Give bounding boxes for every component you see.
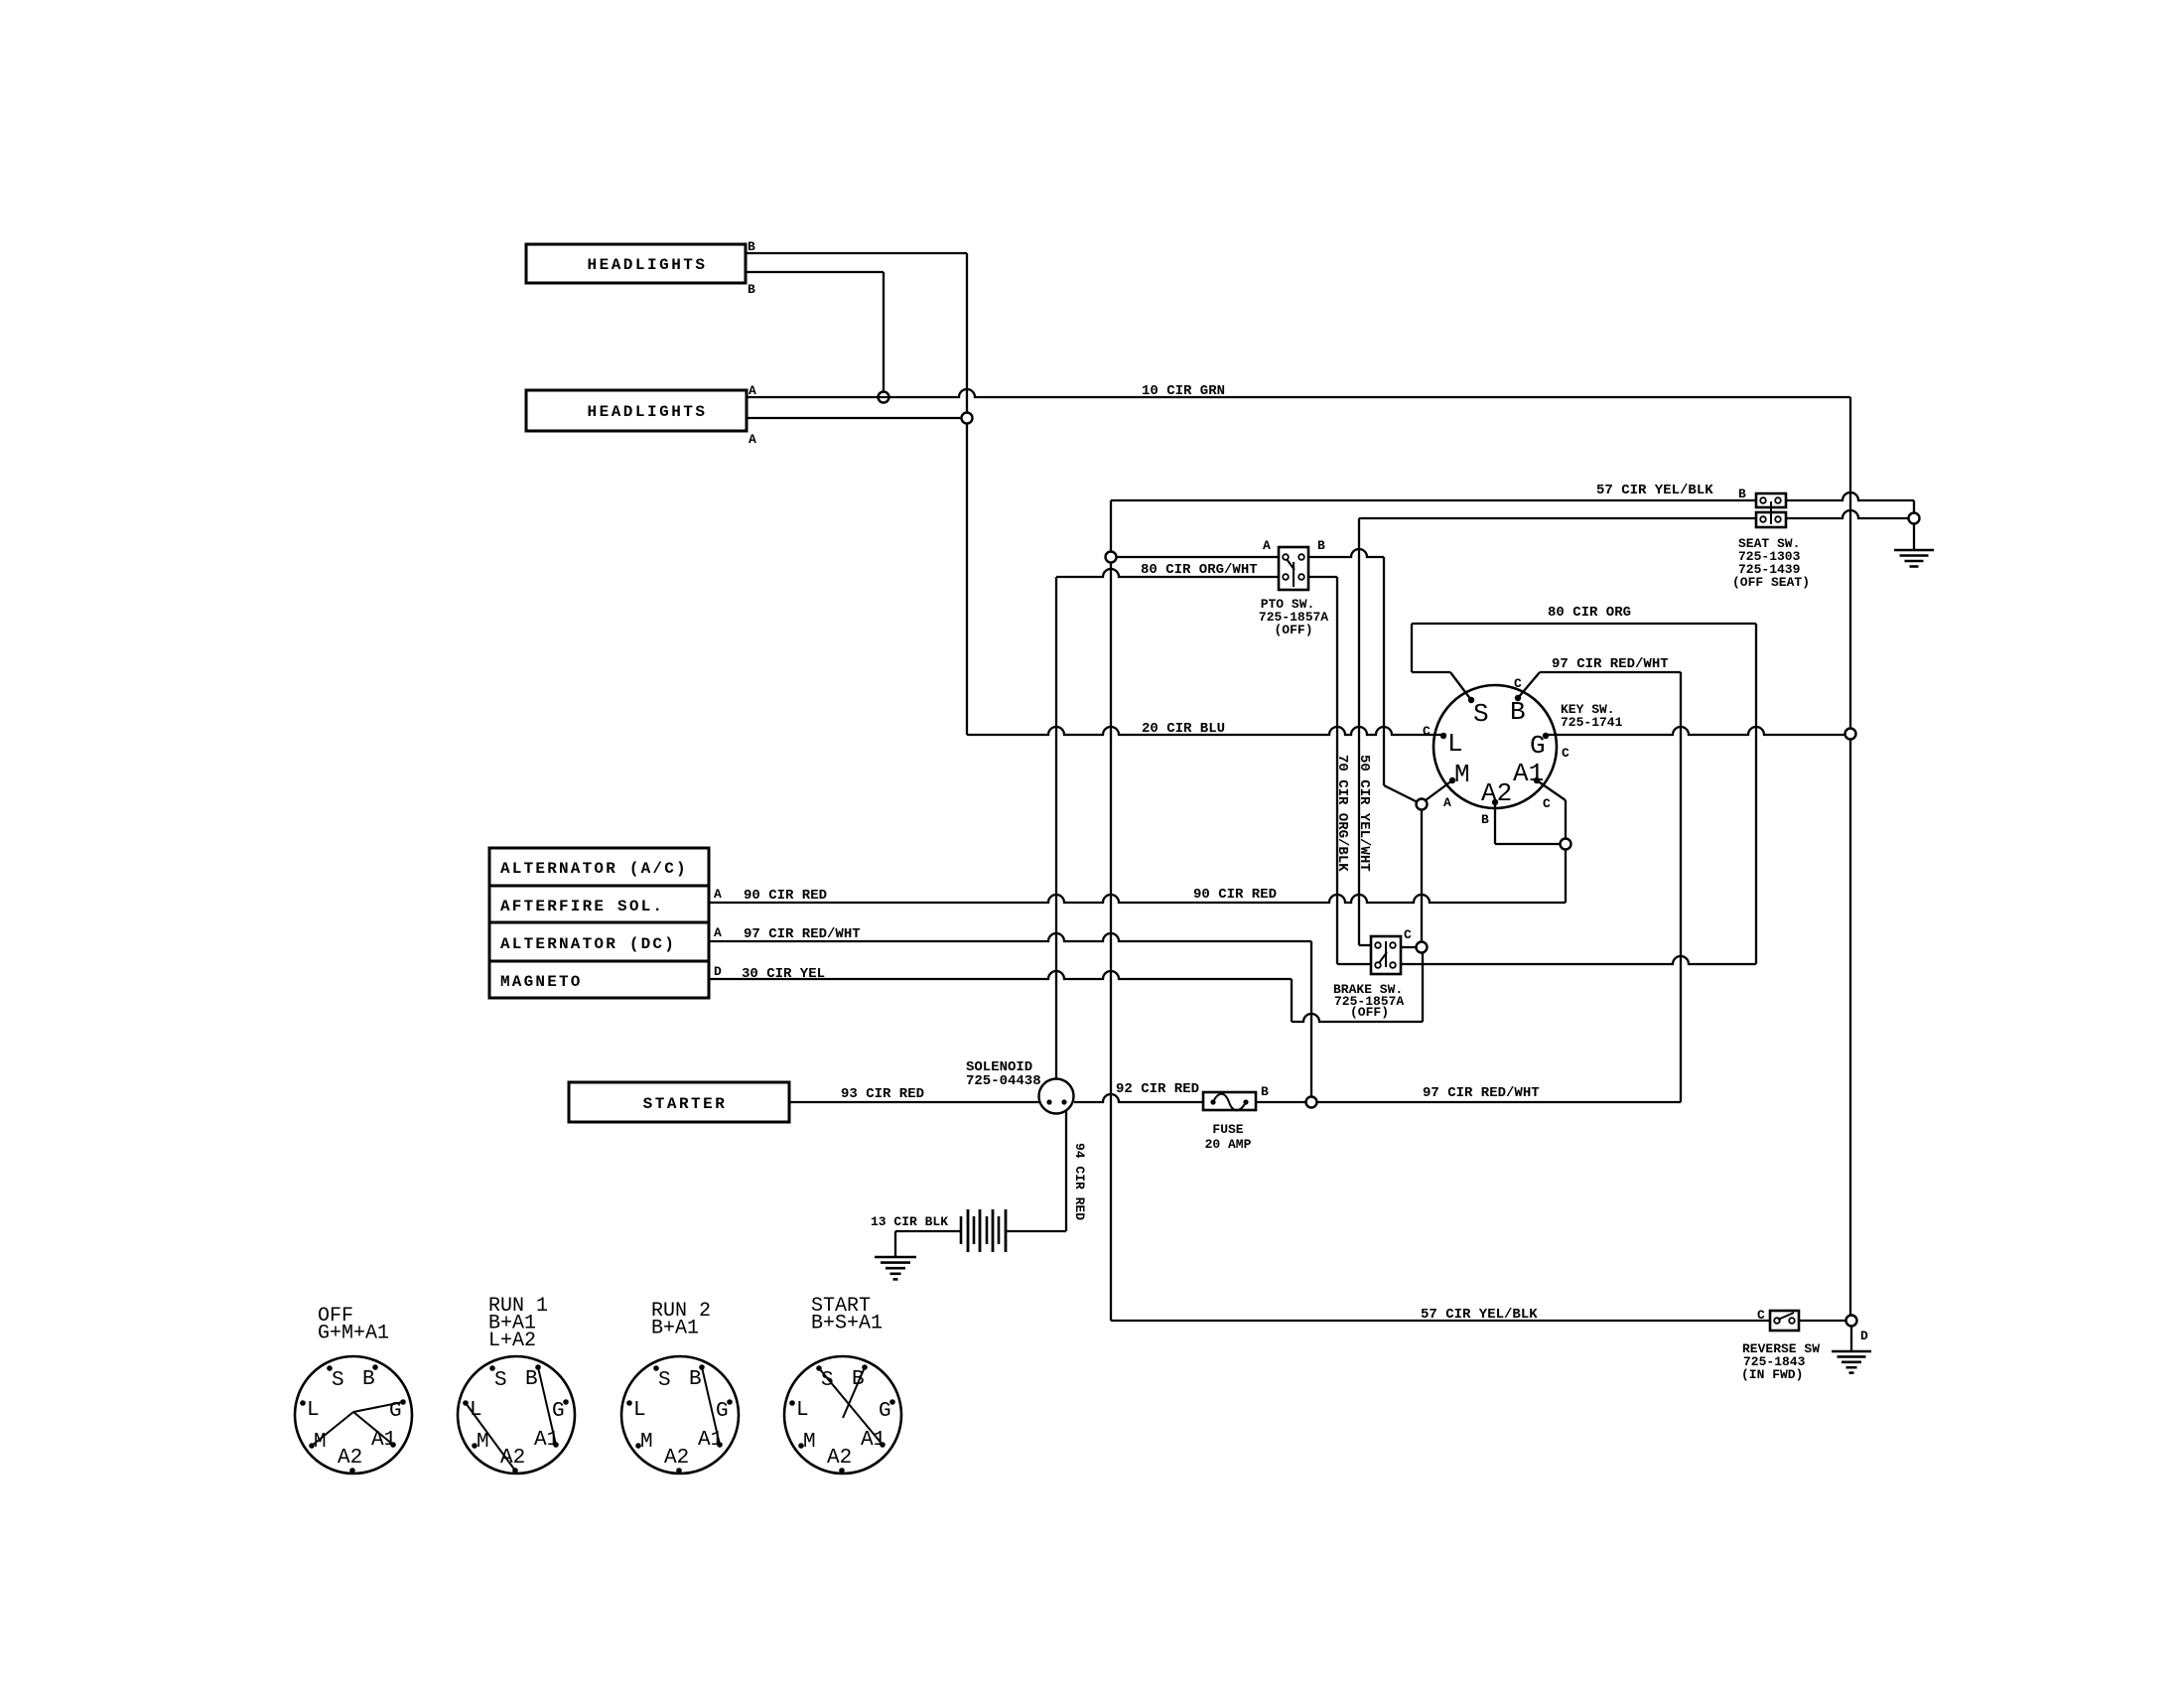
wire alternator dc drop to fuse node: [1310, 941, 1312, 1096]
svg-text:725-1741: 725-1741: [1561, 715, 1623, 730]
svg-text:L: L: [307, 1399, 320, 1422]
node key A connector: [1417, 799, 1428, 810]
pin label B (PTO): [1317, 538, 1325, 553]
svg-text:97 CIR RED/WHT: 97 CIR RED/WHT: [744, 926, 861, 942]
svg-text:(OFF): (OFF): [1350, 1005, 1389, 1020]
svg-text:13 CIR BLK: 13 CIR BLK: [871, 1214, 948, 1229]
svg-text:B: B: [748, 282, 755, 297]
wire 10 CIR GRN: [747, 383, 1850, 399]
wire key A2 drop: [1494, 802, 1496, 844]
wire vertical B lower down to 10 CIR GRN junction: [883, 272, 885, 397]
wire headlights B upper to corner: [746, 252, 967, 254]
box HEADLIGHTS (upper): [526, 244, 746, 283]
wire PTO lower right to 70 CIR ORG/BLK drop: [1308, 576, 1337, 578]
box ALTERNATOR (A/C): [489, 848, 709, 886]
svg-text:AFTERFIRE SOL.: AFTERFIRE SOL.: [500, 898, 664, 915]
wire vertical from B upper down to A lower junction: [966, 253, 968, 735]
svg-text:50 CIR YEL/WHT: 50 CIR YEL/WHT: [1356, 755, 1372, 872]
svg-text:57 CIR YEL/BLK: 57 CIR YEL/BLK: [1421, 1307, 1538, 1323]
key position RUN 2 (B+A1): [621, 1300, 739, 1473]
wire 80 CIR ORG/WHT lower: [1056, 569, 1279, 577]
svg-text:92 CIR RED: 92 CIR RED: [1116, 1081, 1199, 1097]
pin label C near S/B: [1514, 676, 1522, 691]
svg-text:A2: A2: [664, 1447, 689, 1470]
wire battery ground drop: [894, 1231, 896, 1257]
wire vertical 57 CIR YEL/BLK left drop: [1110, 500, 1112, 1321]
wire seat switch B to right corner: [1786, 492, 1914, 500]
wire 80 CIR ORG: [1412, 605, 1756, 624]
wire 97 CIR RED/WHT from key B: [1540, 656, 1681, 672]
svg-text:725-04438: 725-04438: [966, 1073, 1041, 1089]
key position RUN 1 (B+A1, L+A2): [458, 1295, 575, 1473]
key position START (B+S+A1): [784, 1295, 901, 1473]
svg-text:B: B: [748, 239, 755, 254]
key pin B: [1510, 695, 1526, 727]
pin label C (brake): [1404, 927, 1412, 942]
svg-text:(IN FWD): (IN FWD): [1741, 1367, 1803, 1382]
pin label A (lower headlights top): [749, 383, 756, 398]
key pin A1: [1513, 759, 1544, 788]
svg-text:M: M: [1454, 760, 1470, 789]
pin label C (reverse): [1757, 1308, 1765, 1323]
svg-text:A2: A2: [1481, 778, 1512, 808]
svg-text:HEADLIGHTS: HEADLIGHTS: [587, 256, 707, 274]
pin label B (fuse): [1261, 1084, 1269, 1099]
wire fuse to node: [1256, 1101, 1305, 1103]
svg-text:C: C: [1543, 796, 1551, 811]
wire reverse ground stub: [1850, 1326, 1852, 1351]
svg-text:C: C: [1562, 746, 1570, 761]
wire 80 CIR ORG/WHT upper: [1116, 557, 1279, 578]
node junction A lower / blue feed: [962, 413, 973, 424]
node fuse output junction: [1306, 1097, 1317, 1108]
svg-text:S: S: [658, 1369, 671, 1392]
svg-text:S: S: [332, 1369, 344, 1392]
wire seat switch lower right to ground node: [1786, 510, 1909, 518]
wire reverse switch to ground node: [1799, 1320, 1845, 1322]
wire 80 CIR ORG right drop: [1755, 624, 1757, 964]
wire 57 CIR YEL/BLK to seat switch: [1111, 483, 1756, 500]
svg-text:C: C: [1423, 724, 1431, 739]
svg-text:A2: A2: [827, 1447, 852, 1470]
wire 70 CIR ORG/BLK into brake: [1337, 963, 1371, 965]
wire key A1 diagonal: [1537, 780, 1566, 800]
switch BRAKE SW. 725-1857A: [1333, 936, 1404, 1020]
svg-text:C: C: [1757, 1308, 1765, 1323]
ground (battery): [875, 1257, 916, 1279]
svg-text:94 CIR RED: 94 CIR RED: [1072, 1143, 1087, 1220]
pin label B near A2: [1481, 812, 1489, 827]
wire key A2 to connector: [1495, 843, 1560, 845]
wire key M diagonal: [1426, 780, 1452, 800]
svg-text:B+A1: B+A1: [651, 1318, 699, 1340]
wire key B diagonal: [1518, 672, 1540, 698]
wire 94 CIR RED solenoid to battery: [1066, 1110, 1087, 1231]
wire 50 CIR YEL/WHT into brake: [1359, 944, 1371, 946]
box MAGNETO: [489, 961, 709, 998]
svg-text:B: B: [1317, 538, 1325, 553]
svg-text:70 CIR ORG/BLK: 70 CIR ORG/BLK: [1334, 755, 1350, 872]
solenoid SOLENOID 725-04438: [966, 1059, 1074, 1114]
svg-text:L: L: [1447, 729, 1463, 759]
svg-text:(OFF SEAT): (OFF SEAT): [1732, 575, 1810, 590]
svg-text:A: A: [749, 432, 756, 447]
svg-text:B: B: [362, 1368, 375, 1391]
svg-text:S: S: [1473, 699, 1489, 729]
svg-text:90 CIR RED: 90 CIR RED: [1193, 887, 1277, 903]
key pin L: [1440, 729, 1463, 759]
svg-text:G: G: [879, 1400, 891, 1423]
pin label B (upper headlights top): [748, 239, 755, 254]
wire key S horizontal: [1412, 671, 1450, 673]
svg-text:10 CIR GRN: 10 CIR GRN: [1142, 383, 1225, 399]
svg-text:A: A: [714, 925, 722, 940]
svg-text:80 CIR ORG/WHT: 80 CIR ORG/WHT: [1141, 562, 1258, 578]
wire key A1 drop: [1565, 800, 1567, 839]
svg-text:B+S+A1: B+S+A1: [811, 1313, 883, 1335]
switch SEAT SW. 725-1303: [1732, 493, 1810, 590]
wire 97 CIR RED/WHT to key B riser: [1317, 1085, 1681, 1102]
wire A2 node drop to 90 CIR RED: [1565, 849, 1567, 903]
pin label C near G: [1562, 746, 1570, 761]
key pin S: [1468, 697, 1489, 729]
wire 97 CIR RED/WHT right drop: [1680, 672, 1682, 1102]
wire 30 CIR YEL: [709, 966, 1292, 982]
key switch circle KEY SW. 725-1741: [1433, 685, 1623, 808]
svg-text:MAGNETO: MAGNETO: [500, 973, 583, 991]
svg-text:A: A: [1263, 538, 1271, 553]
svg-text:L+A2: L+A2: [488, 1330, 536, 1352]
wire magneto drop: [1291, 979, 1293, 1022]
wire 70 CIR ORG/BLK vertical: [1334, 577, 1350, 964]
svg-text:G: G: [716, 1400, 729, 1423]
svg-text:M: M: [640, 1431, 653, 1454]
wire PTO B drop toward key A node: [1383, 557, 1385, 785]
wire headlights B lower: [746, 271, 884, 273]
wire 13 CIR BLK: [871, 1214, 961, 1231]
key position OFF (G+M+A1): [295, 1305, 412, 1473]
svg-text:97 CIR RED/WHT: 97 CIR RED/WHT: [1423, 1085, 1540, 1101]
svg-text:B: B: [1510, 697, 1526, 727]
svg-text:57 CIR YEL/BLK: 57 CIR YEL/BLK: [1596, 483, 1713, 498]
svg-text:B: B: [525, 1368, 538, 1391]
svg-text:STARTER: STARTER: [643, 1095, 728, 1113]
svg-text:A: A: [1443, 795, 1451, 810]
node junction G wire / 10 CIR GRN: [1845, 729, 1856, 740]
key pin A2: [1481, 778, 1512, 808]
node reverse ground junction: [1846, 1316, 1857, 1327]
wire seat switch right corner down: [1913, 500, 1915, 518]
node junction on 10 CIR GRN at headlights: [879, 392, 889, 403]
wire 50 CIR YEL/WHT vertical: [1356, 518, 1372, 945]
pin label D (reverse): [1860, 1329, 1868, 1343]
wire PTO B to corner: [1308, 549, 1384, 557]
ground (seat switch): [1894, 550, 1934, 567]
wire headlights A lower: [747, 417, 967, 419]
wire battery positive: [1006, 1230, 1066, 1232]
svg-text:HEADLIGHTS: HEADLIGHTS: [587, 403, 707, 421]
pin label C near A1: [1543, 796, 1551, 811]
wire 57 CIR YEL/BLK bottom: [1111, 1307, 1770, 1323]
key pin M: [1449, 760, 1470, 789]
svg-text:(OFF): (OFF): [1274, 623, 1312, 637]
wire brake C riser: [1422, 952, 1424, 1022]
svg-text:S: S: [494, 1369, 507, 1392]
battery: [961, 1209, 1006, 1252]
svg-text:A1: A1: [1513, 759, 1544, 788]
wire key G to 10 CIR GRN junction: [1548, 727, 1844, 735]
svg-text:C: C: [1404, 927, 1412, 942]
node junction 80 CIR ORG/WHT: [1106, 552, 1117, 563]
svg-text:A1: A1: [371, 1429, 396, 1452]
svg-text:D: D: [1860, 1329, 1868, 1343]
pin label A (alternator dc): [714, 925, 722, 940]
svg-text:B: B: [1261, 1084, 1269, 1099]
svg-text:90 CIR RED: 90 CIR RED: [744, 888, 827, 904]
svg-text:B: B: [1738, 487, 1746, 501]
pin label B (seat switch): [1738, 487, 1746, 501]
pin label C near L: [1423, 724, 1431, 739]
key pin G: [1530, 731, 1549, 761]
box AFTERFIRE SOL.: [489, 886, 709, 922]
svg-text:ALTERNATOR (A/C): ALTERNATOR (A/C): [500, 860, 688, 878]
wire magneto to brake C: [1292, 1014, 1423, 1022]
box HEADLIGHTS (lower): [526, 390, 747, 431]
svg-text:A: A: [749, 383, 756, 398]
wire diagonal into key A node: [1384, 785, 1418, 802]
wire key A node drop: [1421, 809, 1423, 943]
wire 20 CIR BLU: [967, 721, 1441, 737]
wire 92 CIR RED: [1074, 1081, 1203, 1102]
svg-text:A2: A2: [338, 1447, 362, 1470]
wire 93 CIR RED: [789, 1086, 1039, 1102]
svg-text:G: G: [1530, 731, 1546, 761]
svg-text:97 CIR RED/WHT: 97 CIR RED/WHT: [1552, 656, 1669, 672]
svg-text:M: M: [803, 1431, 816, 1454]
svg-text:80 CIR ORG: 80 CIR ORG: [1548, 605, 1631, 621]
fuse FUSE 20 AMP: [1203, 1092, 1256, 1152]
pin label A near key A node: [1443, 795, 1451, 810]
pin label A (afterfire sol.): [714, 887, 722, 902]
svg-text:30 CIR YEL: 30 CIR YEL: [742, 966, 825, 982]
svg-text:93 CIR RED: 93 CIR RED: [841, 1086, 924, 1102]
wire seat switch lower left: [1359, 517, 1756, 519]
switch PTO SW. 725-1857A: [1259, 547, 1328, 637]
svg-text:20 AMP: 20 AMP: [1205, 1137, 1252, 1152]
ground (reverse switch): [1832, 1351, 1871, 1373]
switch REVERSE SW 725-1843: [1741, 1311, 1820, 1382]
pin label D (magneto): [714, 964, 722, 979]
pin label B (upper headlights bottom): [748, 282, 755, 297]
box ALTERNATOR (DC): [489, 922, 709, 961]
svg-text:FUSE: FUSE: [1212, 1122, 1243, 1137]
svg-text:D: D: [714, 964, 722, 979]
wire 90 CIR RED: [709, 887, 1566, 904]
wire key S diagonal: [1450, 672, 1471, 700]
wire solenoid coil feed vertical: [1055, 577, 1057, 1079]
svg-text:L: L: [633, 1399, 646, 1422]
svg-text:B: B: [689, 1368, 702, 1391]
node seat ground junction: [1909, 513, 1920, 524]
svg-text:20 CIR BLU: 20 CIR BLU: [1142, 721, 1225, 737]
pin label A (lower headlights bottom): [749, 432, 756, 447]
wire brake lower to 80 CIR ORG drop: [1401, 956, 1756, 964]
wire 97 CIR RED/WHT from alternator dc: [709, 926, 1311, 942]
wire 80 CIR ORG left riser: [1411, 624, 1413, 672]
svg-text:M: M: [477, 1431, 489, 1454]
box STARTER: [569, 1082, 789, 1122]
node key A1/A2 connector: [1561, 839, 1571, 850]
pin label A (PTO): [1263, 538, 1271, 553]
svg-text:G+M+A1: G+M+A1: [318, 1323, 389, 1345]
svg-text:L: L: [796, 1399, 809, 1422]
node brake C junction: [1417, 942, 1428, 953]
svg-text:C: C: [1514, 676, 1522, 691]
wire 10 CIR GRN vertical right side: [1849, 397, 1851, 1321]
svg-text:A: A: [714, 887, 722, 902]
wire seat ground stub: [1913, 523, 1915, 549]
svg-text:B: B: [1481, 812, 1489, 827]
wire brake C to node: [1401, 946, 1416, 948]
svg-text:ALTERNATOR (DC): ALTERNATOR (DC): [500, 935, 676, 953]
svg-text:G: G: [552, 1400, 565, 1423]
